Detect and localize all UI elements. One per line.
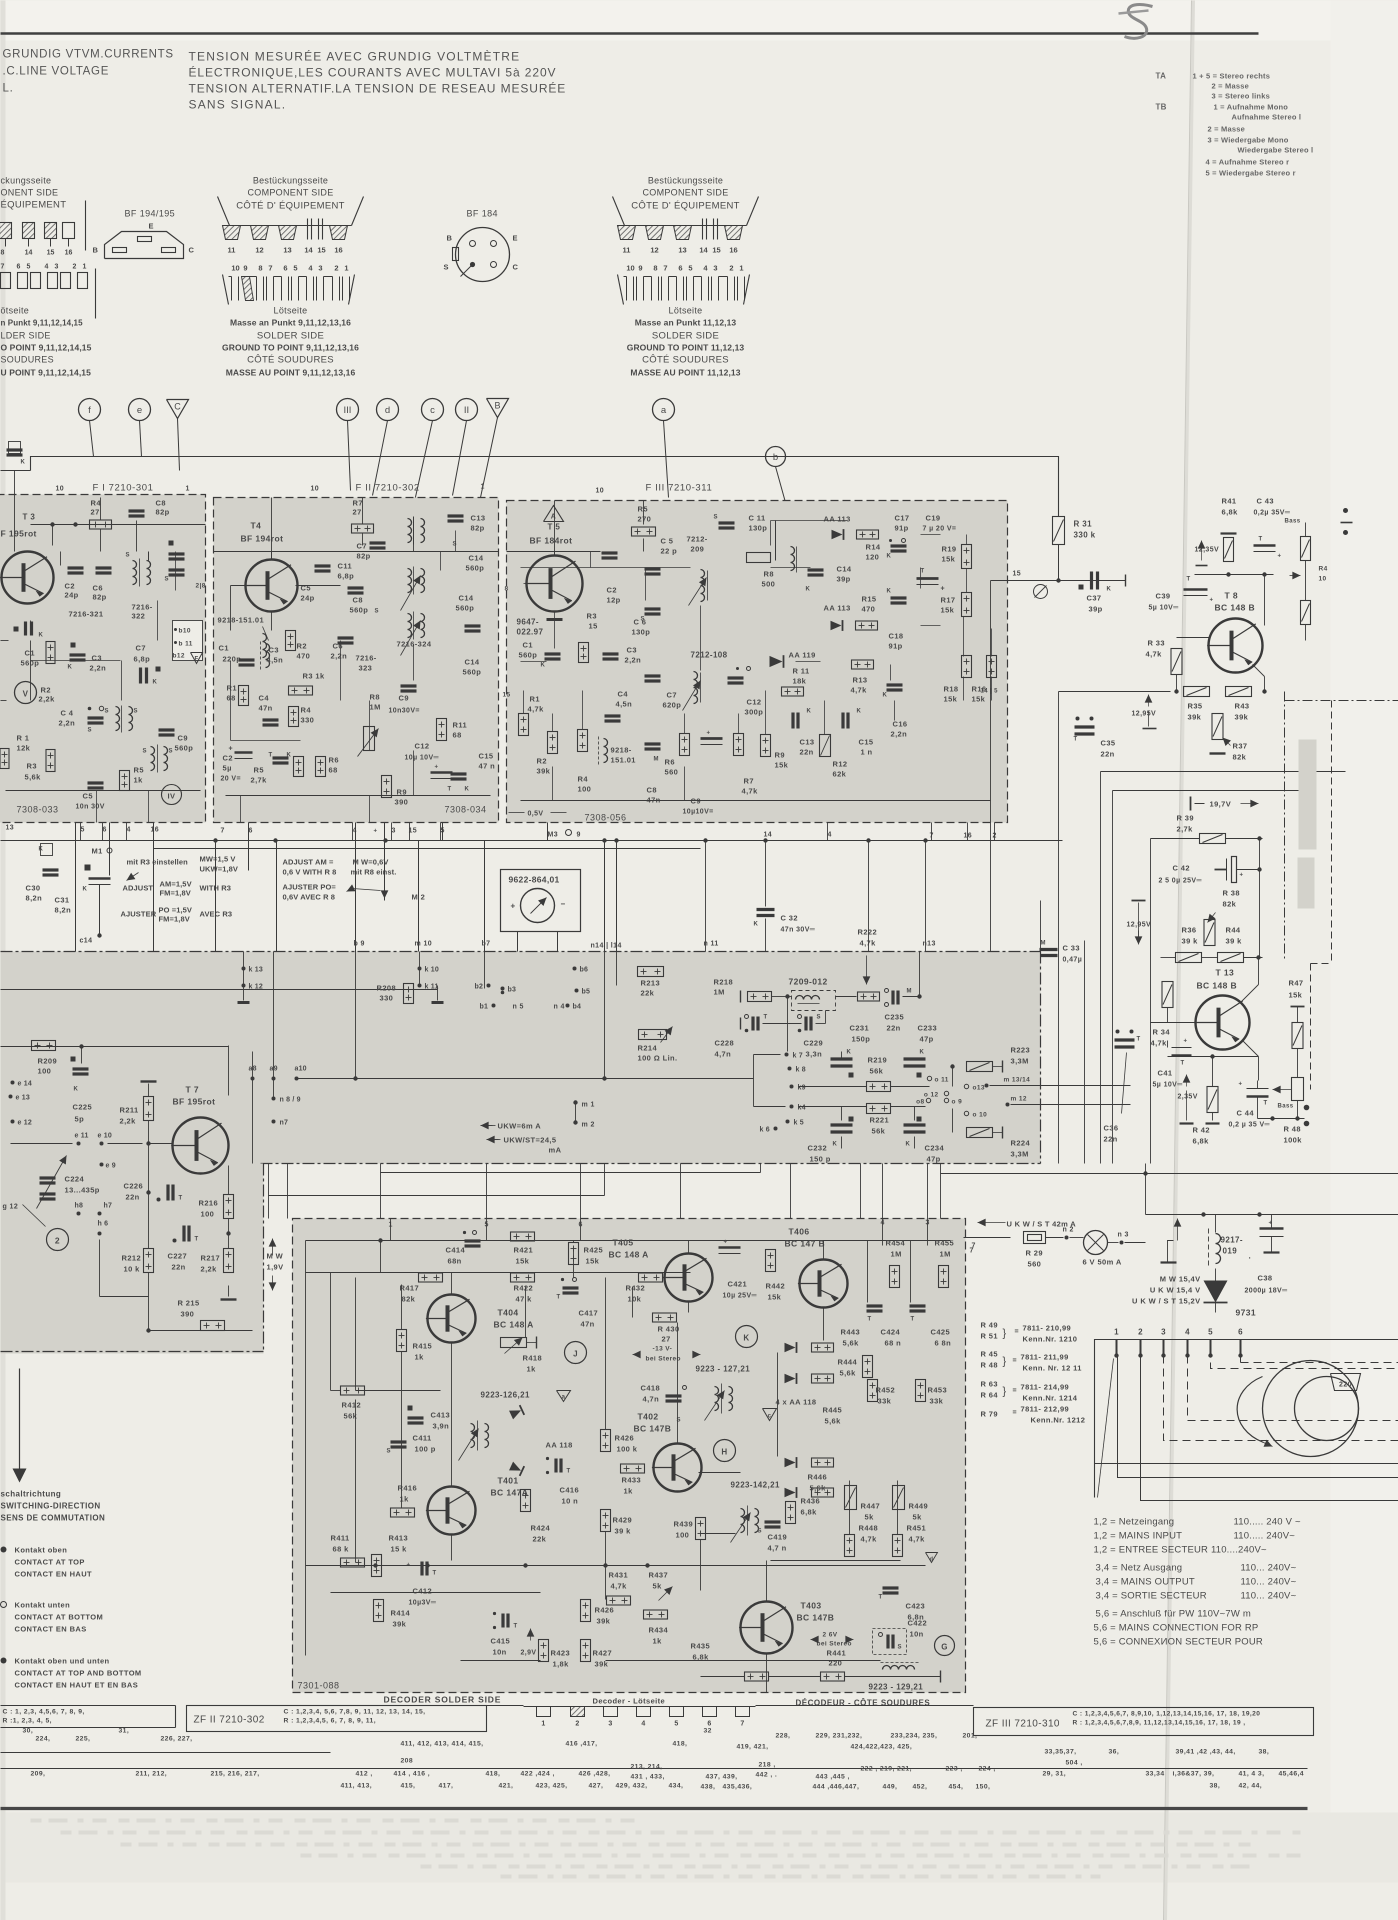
svg-text:C2: C2: [607, 586, 617, 595]
junction dots on bus: [213, 838, 217, 842]
svg-text:=: =: [1013, 1388, 1018, 1395]
svg-text:R451: R451: [907, 1524, 927, 1533]
UKW/ST 42mA note: [978, 1222, 1006, 1224]
a10 contact: [295, 1077, 299, 1081]
band cluster wires: [841, 1052, 843, 1059]
svg-text:+: +: [1278, 554, 1282, 560]
FII internal wires: [271, 498, 273, 560]
svg-text:13: 13: [283, 246, 291, 255]
svg-text:ADJUST AM =: ADJUST AM =: [283, 858, 335, 867]
connector cut b10 b11 b12: [173, 621, 203, 661]
svg-text:1,2 = Netzeingаng: 1,2 = Netzeingаng: [1094, 1517, 1175, 1528]
left edge cut resistor x0: [0, 749, 9, 769]
svg-text:+: +: [435, 765, 439, 771]
dash-dot separator right: [1284, 692, 1286, 961]
svg-text:T: T: [195, 1237, 199, 1243]
svg-text:30,: 30,: [23, 1728, 34, 1735]
svg-text:10n: 10n: [493, 1648, 507, 1657]
contact o11: [927, 1076, 931, 1080]
capacitor C18 91p lower: [891, 596, 907, 599]
svg-text:+: +: [1239, 1082, 1243, 1088]
svg-text:ckungsseite: ckungsseite: [1, 176, 52, 186]
resistor R425b 39k: [581, 1600, 591, 1622]
diode ladder 4x AA118: [785, 1342, 797, 1353]
svg-text:421,: 421,: [499, 1783, 514, 1790]
wire b9 drop: [355, 823, 357, 952]
svg-text:330: 330: [380, 994, 394, 1003]
svg-text:220: 220: [1339, 1382, 1352, 1389]
wire T13 base: [1167, 1008, 1169, 1023]
svg-text:443 ,445 ,: 443 ,445 ,: [816, 1774, 850, 1781]
svg-text:BC 148 B: BC 148 B: [1215, 603, 1256, 613]
svg-text:R4: R4: [91, 499, 102, 508]
svg-text:S: S: [126, 553, 130, 559]
svg-text:560p: 560p: [456, 604, 475, 613]
contact o8: [926, 1098, 930, 1102]
right gray strip block: [1299, 740, 1317, 850]
svg-text:k 10: k 10: [425, 967, 439, 974]
resistor R42 6,8k: [1207, 1087, 1218, 1113]
svg-text:33k: 33k: [878, 1397, 892, 1406]
svg-text:8: 8: [505, 586, 509, 593]
svg-text:429, 432,: 429, 432,: [616, 1783, 648, 1790]
svg-text:22n: 22n: [1104, 1135, 1118, 1144]
svg-text:2,7k: 2,7k: [251, 776, 268, 785]
resistor R427 39k: [581, 1640, 591, 1662]
svg-text:R 48: R 48: [1284, 1125, 1301, 1134]
svg-text:CONTACT AT BOTTOM: CONTACT AT BOTTOM: [15, 1613, 104, 1622]
svg-text:T: T: [514, 1624, 518, 1630]
svg-text:0,6 V WITH R 8: 0,6 V WITH R 8: [283, 868, 337, 877]
switch matrix band: [1, 952, 1041, 1164]
svg-text:=: =: [1013, 1358, 1018, 1365]
svg-text:222 , 219, 221,: 222 , 219, 221,: [861, 1766, 912, 1773]
svg-text:15: 15: [317, 246, 325, 255]
svg-text:BC 148 A: BC 148 A: [609, 1250, 649, 1260]
svg-text:8,2n: 8,2n: [55, 906, 72, 915]
resistor R424 22k: [521, 1490, 531, 1512]
resistor R417 82k: [419, 1273, 443, 1282]
svg-text:5 = Wiedergabe Stereo r: 5 = Wiedergabe Stereo r: [1206, 169, 1296, 178]
svg-text:6,8p: 6,8p: [134, 655, 151, 664]
svg-text:R221: R221: [870, 1116, 890, 1125]
svg-text:20 V=: 20 V=: [221, 776, 242, 783]
svg-text:15k: 15k: [516, 1257, 530, 1266]
svg-text:R3 1k: R3 1k: [303, 672, 325, 681]
resistor R213 22k: [638, 967, 664, 977]
T7 emitter ground: [228, 1286, 230, 1297]
svg-text:R427: R427: [593, 1649, 613, 1658]
svg-text:R 34: R 34: [1153, 1028, 1171, 1037]
svg-text:TB: TB: [1156, 103, 1167, 112]
svg-text:224,: 224,: [36, 1736, 51, 1743]
contact e12: [11, 1120, 15, 1124]
svg-text:C 43: C 43: [1257, 497, 1274, 506]
svg-text:K: K: [807, 709, 812, 715]
svg-text:2,35V: 2,35V: [1178, 1094, 1198, 1101]
svg-text:5µ 10V═: 5µ 10V═: [1153, 1082, 1183, 1089]
svg-text:R 63: R 63: [981, 1380, 998, 1389]
contact h7: [98, 1212, 102, 1216]
svg-text:427,: 427,: [589, 1783, 604, 1790]
svg-text:68 n: 68 n: [885, 1339, 902, 1348]
svg-text:414 , 416 ,: 414 , 416 ,: [394, 1771, 431, 1778]
svg-text:DÉCODEUR - CÔTE SOUDURES: DÉCODEUR - CÔTE SOUDURES: [796, 1699, 931, 1708]
svg-text:0,47µ: 0,47µ: [1063, 957, 1083, 964]
svg-text:7212-108: 7212-108: [691, 651, 728, 660]
svg-text:K: K: [906, 1142, 911, 1148]
svg-text:C5: C5: [83, 792, 93, 801]
svg-text:e 12: e 12: [18, 1120, 32, 1127]
svg-text:C226: C226: [124, 1182, 144, 1191]
capacitor C227 22n: [182, 1226, 185, 1242]
svg-text:CÔTÉ SOUDURES: CÔTÉ SOUDURES: [642, 355, 729, 366]
svg-text:C 32: C 32: [781, 914, 798, 923]
resistor R448 4,7k: [845, 1535, 855, 1557]
wire bus y848: [154, 848, 701, 850]
svg-text:mit R8 einst.: mit R8 einst.: [351, 868, 397, 877]
svg-text:7216-: 7216-: [132, 603, 153, 612]
svg-text:0,2 µ 35 V═: 0,2 µ 35 V═: [1229, 1122, 1270, 1129]
svg-text:R223: R223: [1011, 1046, 1031, 1055]
svg-text:K: K: [806, 587, 811, 593]
svg-text:k 11: k 11: [425, 984, 439, 991]
wire x990: [990, 581, 992, 952]
svg-text:225,: 225,: [76, 1736, 91, 1743]
contact b1: [492, 1004, 496, 1008]
svg-text:120: 120: [866, 553, 880, 562]
svg-text:C15: C15: [859, 738, 874, 747]
transformer winding swirl: [1263, 1361, 1359, 1457]
svg-text:C16: C16: [893, 720, 908, 729]
svg-text:e 9: e 9: [106, 1163, 116, 1170]
svg-text:C414: C414: [446, 1246, 466, 1255]
svg-text:AA 118: AA 118: [546, 1441, 573, 1450]
svg-text:CONTACT EN HAUT: CONTACT EN HAUT: [15, 1570, 93, 1579]
svg-text:R416: R416: [398, 1484, 418, 1493]
capacitor C417 47n: [563, 1286, 579, 1289]
svg-text:F III 7210-311: F III 7210-311: [646, 483, 713, 494]
svg-text:C38: C38: [1258, 1274, 1273, 1283]
svg-text:C12: C12: [747, 698, 762, 707]
svg-text:R208: R208: [377, 984, 397, 993]
svg-text:GROUND TO POINT 11,12,13: GROUND TO POINT 11,12,13: [627, 343, 745, 353]
svg-text:S: S: [134, 709, 138, 715]
svg-text:56k: 56k: [872, 1127, 886, 1136]
svg-text:Kenn.Nr. 1212: Kenn.Nr. 1212: [1031, 1416, 1086, 1425]
resistor R423 1,8k: [539, 1640, 549, 1662]
svg-text:K: K: [857, 709, 862, 715]
svg-text:110... 240V~: 110... 240V~: [1241, 1577, 1297, 1588]
svg-text:R 51: R 51: [981, 1332, 998, 1341]
svg-text:K: K: [833, 1142, 838, 1148]
svg-text:n 2: n 2: [1063, 1227, 1074, 1234]
svg-text:6: 6: [249, 828, 253, 835]
T5 emitter ground: [547, 618, 563, 621]
svg-text:5µ: 5µ: [223, 764, 232, 773]
svg-text:5,6k: 5,6k: [840, 1369, 857, 1378]
svg-text:215, 216, 217,: 215, 216, 217,: [211, 1771, 260, 1778]
decoder transformer 9223-126: [471, 1424, 475, 1448]
svg-text:n 3: n 3: [1118, 1232, 1129, 1239]
svg-text:4,7n: 4,7n: [715, 1050, 732, 1059]
wire C41 row: [1181, 1056, 1183, 1057]
svg-text:AJUSTER: AJUSTER: [121, 910, 157, 919]
IF transformer 7216-324 coils: [408, 519, 412, 543]
svg-text:5,6k: 5,6k: [25, 773, 42, 782]
svg-text:R441: R441: [827, 1649, 847, 1658]
decoder box 7301-088: [293, 1219, 966, 1693]
svg-text:U K W 15,4 V: U K W 15,4 V: [1150, 1286, 1201, 1295]
svg-text:SWITCHING-DIRECTION: SWITCHING-DIRECTION: [1, 1502, 101, 1511]
svg-text:4,7k: 4,7k: [528, 705, 545, 714]
svg-text:C234: C234: [925, 1144, 945, 1153]
svg-text:k 7: k 7: [793, 1053, 803, 1060]
svg-text:9218-151.01: 9218-151.01: [218, 616, 265, 625]
svg-text:T: T: [1187, 577, 1191, 583]
C36 pointer: [1122, 1053, 1127, 1114]
svg-text:R41: R41: [1222, 497, 1237, 506]
svg-text:62k: 62k: [833, 770, 847, 779]
node 2 circle: [47, 1229, 69, 1251]
svg-text:22n: 22n: [126, 1193, 140, 1202]
svg-text:R417: R417: [400, 1284, 420, 1293]
svg-text:R423: R423: [551, 1649, 571, 1658]
svg-text:201,: 201,: [963, 1733, 978, 1740]
svg-text:4 x AA 118: 4 x AA 118: [776, 1398, 817, 1407]
wire horiz y1173: [941, 1173, 1398, 1175]
svg-text:S: S: [453, 542, 457, 548]
svg-text:R446: R446: [808, 1473, 828, 1482]
svg-text:3 = Wiedergabe Mono: 3 = Wiedergabe Mono: [1208, 136, 1289, 145]
svg-text:10: 10: [231, 264, 239, 273]
node IV: [162, 785, 182, 805]
svg-text:2: 2: [73, 264, 77, 271]
svg-text:209: 209: [691, 545, 705, 554]
svg-text:2: 2: [1138, 1328, 1143, 1337]
svg-text:R : 1,2,3,4,5,6,7,8,9, 11,12,: R : 1,2,3,4,5,6,7,8,9, 11,12,13,14,15,16…: [1073, 1720, 1246, 1727]
fuse R29 560: [1024, 1232, 1046, 1244]
svg-text:ÉQUIPEMENT: ÉQUIPEMENT: [1, 200, 67, 211]
svg-text:16: 16: [729, 246, 737, 255]
svg-text:R4: R4: [578, 775, 589, 784]
svg-text:K: K: [847, 1050, 852, 1056]
svg-text:C11: C11: [338, 562, 353, 571]
capacitor C4b: [273, 756, 289, 759]
svg-text:o 9: o 9: [952, 1099, 963, 1106]
svg-text:419, 421,: 419, 421,: [737, 1744, 769, 1751]
svg-text:F: F: [194, 657, 198, 663]
svg-text:C30: C30: [26, 884, 41, 893]
transformer outer box: [1095, 1340, 1398, 1498]
svg-text:110... 240V~: 110... 240V~: [1241, 1563, 1297, 1574]
contact o10: [964, 1111, 968, 1115]
arrow up power: [1177, 1219, 1179, 1241]
phase symbol: [1034, 585, 1048, 599]
svg-text:C41: C41: [1158, 1069, 1173, 1078]
wire FIII det bus: [771, 567, 811, 569]
svg-text:b: b: [773, 452, 778, 463]
svg-text:233,234, 235,: 233,234, 235,: [891, 1733, 938, 1740]
svg-text:5,6k: 5,6k: [810, 1484, 827, 1493]
svg-text:1k: 1k: [415, 1353, 425, 1362]
resistor R442 15k: [766, 1250, 776, 1272]
svg-text:130p: 130p: [749, 524, 768, 533]
svg-text:C3: C3: [269, 646, 279, 655]
svg-text:e 14: e 14: [18, 1081, 32, 1088]
svg-text:68n: 68n: [448, 1257, 462, 1266]
svg-text:K: K: [883, 693, 888, 699]
resistor R222 4,7k in band: [858, 992, 880, 1001]
svg-text:7216-: 7216-: [356, 654, 377, 663]
svg-text:ѕchaltrichtung: ѕchaltrichtung: [1, 1490, 62, 1499]
svg-text:U K W / S T 15,2V: U K W / S T 15,2V: [1132, 1297, 1200, 1306]
svg-text:100: 100: [578, 785, 592, 794]
svg-text:15: 15: [1013, 571, 1022, 578]
svg-text:MASSE AU POINT 9,11,12,13,16: MASSE AU POINT 9,11,12,13,16: [226, 368, 356, 378]
svg-text:R447: R447: [861, 1502, 881, 1511]
measure arrow M2: [384, 823, 386, 901]
svg-text:E: E: [513, 234, 518, 243]
resistor R429 39k: [601, 1510, 611, 1532]
node F triangle: [191, 653, 203, 664]
svg-text:2,2k: 2,2k: [120, 1117, 137, 1126]
svg-text:9218-: 9218-: [611, 746, 632, 755]
svg-text:T: T: [1259, 537, 1263, 543]
svg-text:32: 32: [704, 1728, 712, 1735]
svg-text:10n30V=: 10n30V=: [389, 708, 420, 715]
decoder wires: [380, 1241, 382, 1273]
resistor R43 39k: [1226, 687, 1252, 697]
potentiometer below R47: [1292, 1078, 1304, 1101]
svg-text:2 = Masse: 2 = Masse: [1208, 125, 1245, 134]
svg-text:n 8 / 9: n 8 / 9: [280, 1097, 301, 1104]
contact b2: [487, 984, 491, 988]
long wire y989: [1, 989, 438, 991]
contact o12: [944, 1091, 948, 1095]
svg-text:R442: R442: [766, 1282, 786, 1291]
svg-text:10µ 10V═: 10µ 10V═: [405, 755, 439, 762]
svg-text:15k: 15k: [942, 555, 956, 564]
electrolytic C38 2000µ18V: [1260, 1227, 1284, 1230]
svg-text:K: K: [39, 847, 44, 853]
svg-text:n7: n7: [280, 1120, 289, 1127]
resistor R8 500: [747, 553, 771, 563]
svg-text:47p: 47p: [927, 1155, 941, 1164]
wire n13 into band: [919, 952, 921, 997]
svg-text:o 12: o 12: [924, 1092, 939, 1099]
svg-text:12p: 12p: [607, 596, 621, 605]
svg-text:C2: C2: [65, 582, 75, 591]
svg-text:12: 12: [650, 246, 658, 255]
svg-text:Lötseite: Lötseite: [274, 306, 308, 316]
svg-text:4: 4: [127, 827, 131, 834]
svg-text:435,436,: 435,436,: [723, 1784, 753, 1791]
svg-text:22n: 22n: [887, 1024, 901, 1033]
svg-text:39 k: 39 k: [1182, 937, 1199, 946]
wire drops to band: [153, 823, 155, 952]
svg-text:T402: T402: [638, 1412, 659, 1422]
svg-text:0,5V: 0,5V: [528, 811, 544, 818]
svg-text:33,35,37,: 33,35,37,: [1045, 1749, 1077, 1756]
svg-text:C416: C416: [560, 1486, 580, 1495]
svg-text:Kontakt unten: Kontakt unten: [15, 1601, 71, 1610]
wire T13 emitter: [1243, 1041, 1259, 1057]
svg-text:S: S: [898, 1645, 902, 1651]
svg-text:14: 14: [699, 246, 708, 255]
svg-text:a: a: [562, 1395, 566, 1401]
wire FIII bottom bus: [521, 800, 991, 802]
svg-text:C229: C229: [804, 1039, 824, 1048]
svg-text:Masse an Punkt 11,12,13: Masse an Punkt 11,12,13: [635, 318, 737, 328]
svg-text:R435: R435: [691, 1642, 711, 1651]
svg-text:3,4 = Netz Auѕgang: 3,4 = Netz Auѕgang: [1096, 1563, 1183, 1574]
wire FIII bus: [507, 551, 601, 553]
svg-text:3,9n: 3,9n: [433, 1422, 450, 1431]
svg-text:C17: C17: [895, 514, 910, 523]
svg-text:F 195rot: F 195rot: [1, 529, 37, 539]
svg-text:411, 413,: 411, 413,: [341, 1783, 373, 1790]
node C: [167, 400, 189, 419]
svg-text:220p: 220p: [223, 655, 242, 664]
svg-text:4,7k: 4,7k: [851, 686, 868, 695]
svg-text:SOLDER SIDE: SOLDER SIDE: [652, 331, 719, 342]
svg-text:H: H: [721, 1448, 727, 1457]
svg-text:C 42: C 42: [1173, 864, 1190, 873]
svg-text:}: }: [1003, 1328, 1007, 1340]
svg-text:R422: R422: [514, 1284, 534, 1293]
svg-text:−: −: [561, 900, 566, 909]
svg-text:7: 7: [268, 264, 272, 273]
svg-text:470: 470: [862, 605, 876, 614]
svg-text:R3: R3: [27, 762, 37, 771]
node c: [422, 399, 444, 421]
svg-text:560: 560: [665, 768, 679, 777]
svg-text:BF 184: BF 184: [467, 209, 498, 219]
svg-text:R414: R414: [391, 1609, 411, 1618]
svg-text:+: +: [707, 731, 711, 737]
svg-text:R 45: R 45: [981, 1350, 998, 1359]
svg-text:S: S: [105, 709, 109, 715]
potentiometer R418 1k: [501, 1338, 527, 1348]
svg-text:-13 V-: -13 V-: [653, 1346, 673, 1353]
svg-text:T: T: [557, 1295, 561, 1301]
svg-text:417,: 417,: [439, 1783, 454, 1790]
wire out pin15: [991, 580, 1126, 582]
svg-text:M1: M1: [92, 847, 103, 856]
svg-text:500: 500: [762, 580, 776, 589]
legend contact top and bottom: [1, 1658, 7, 1664]
svg-text:C4: C4: [618, 690, 629, 699]
contact k8: [788, 1067, 792, 1071]
IF transformer 7216-321 coil: [116, 707, 120, 731]
wire T13 collector: [1241, 985, 1259, 1003]
svg-text:k9: k9: [798, 1085, 806, 1092]
svg-text:R19: R19: [942, 545, 957, 554]
svg-text:C224: C224: [65, 1175, 85, 1184]
svg-text:R 215: R 215: [178, 1299, 200, 1308]
svg-text:390: 390: [181, 1310, 195, 1319]
wire R31 down: [1058, 545, 1060, 581]
svg-text:100: 100: [38, 1067, 52, 1076]
svg-text:B: B: [447, 234, 453, 243]
svg-text:6: 6: [1238, 1328, 1243, 1337]
svg-text:C8: C8: [353, 596, 363, 605]
wire lamp row: [964, 1237, 1011, 1239]
transformer pointer line: [1098, 1359, 1114, 1498]
svg-text:0,2µ 35V═: 0,2µ 35V═: [1254, 510, 1291, 517]
svg-text:11: 11: [623, 246, 631, 255]
